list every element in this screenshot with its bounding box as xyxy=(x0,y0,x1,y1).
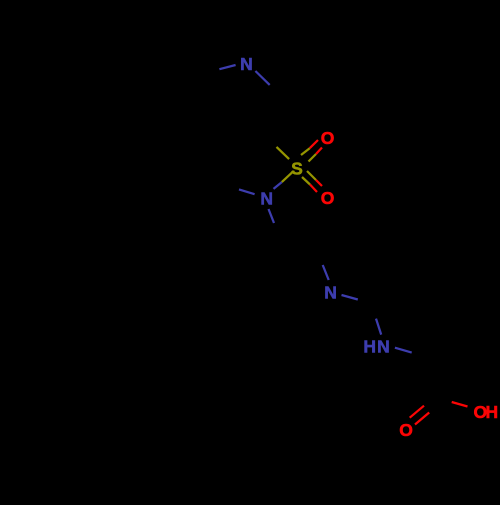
svg-text:N: N xyxy=(240,54,253,74)
wire: C=O carboxyl double bond line B (red half) xyxy=(415,413,429,425)
svg-text:N: N xyxy=(324,282,337,302)
wire: bond N4H-C right half (blue) xyxy=(395,348,412,353)
svg-text:N: N xyxy=(377,337,390,357)
wire: S=O lower double bond line B (olive+red) xyxy=(302,177,310,185)
wire: C=O carboxyl double bond line A (red half) xyxy=(410,406,424,418)
wire: bond S-N2 (blue half) xyxy=(274,182,282,189)
svg-text:O: O xyxy=(321,188,335,208)
svg-text:O: O xyxy=(399,420,413,440)
svg-text:S: S xyxy=(291,159,303,179)
wire: S=O upper double bond line B (olive+red) xyxy=(309,154,317,162)
wire: bond N2-C left half (blue) xyxy=(239,189,255,194)
wire: bond S-C up-left half (olive) xyxy=(277,147,290,159)
svg-text:O: O xyxy=(321,128,335,148)
wire: bond N3-C up half (blue) xyxy=(323,265,329,280)
svg-text:H: H xyxy=(363,337,376,357)
wire: S=O lower double bond line A (olive+red) xyxy=(307,171,316,180)
wire: bond S-N2 (olive half) xyxy=(282,171,294,182)
wire: C-OH bond (red half) xyxy=(452,402,468,407)
wire: S=O upper double bond line A (olive+red) xyxy=(301,148,310,155)
wire: bond N2-C down half (blue) xyxy=(269,209,275,223)
wire: bond C-N4H upper half (blue) xyxy=(376,319,381,335)
svg-text:N: N xyxy=(260,188,273,208)
wire: bond N1-C left half (blue) xyxy=(219,65,235,69)
wire: bond N3-C right half (blue) xyxy=(342,295,358,300)
svg-text:H: H xyxy=(485,402,498,422)
wire: bond N1-C right half (blue) xyxy=(255,71,269,85)
